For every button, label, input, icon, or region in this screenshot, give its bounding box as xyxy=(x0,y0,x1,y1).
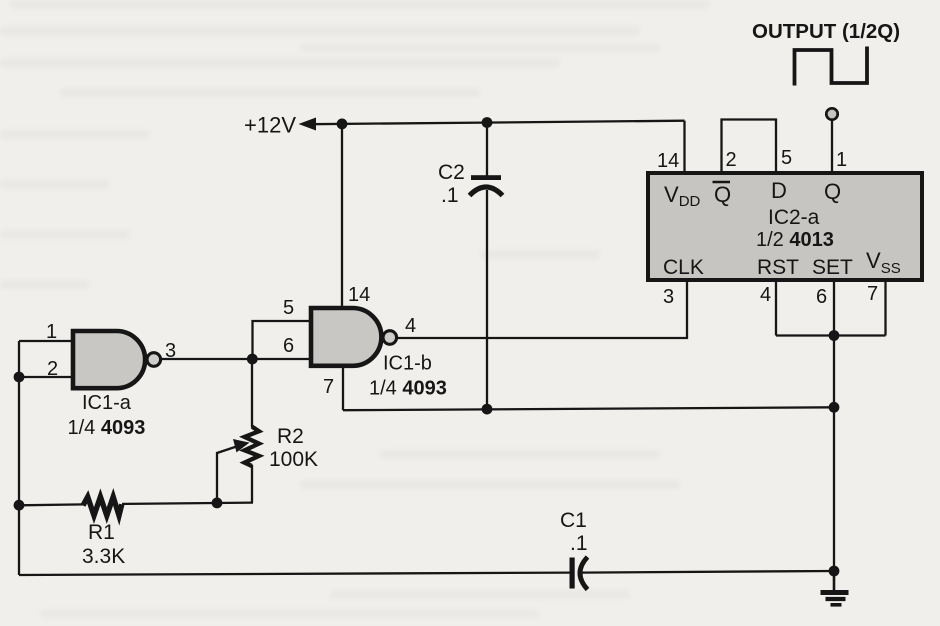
svg-text:4: 4 xyxy=(760,284,771,306)
svg-text:C1: C1 xyxy=(560,509,587,532)
wire IC2 pin 4 lead xyxy=(775,279,777,336)
wire R2 top lead xyxy=(251,359,253,427)
svg-text:3.3K: 3.3K xyxy=(82,545,125,568)
wire IC1-a pin 1 lead xyxy=(19,340,74,342)
wire IC2 pin 2 to pin 5 loop xyxy=(722,120,777,174)
junction node: rail / IC1-b pin14 xyxy=(337,119,348,130)
IC2-a 4013 body xyxy=(648,173,922,280)
junction node: C2 / mid wire xyxy=(482,404,493,415)
svg-text:1/2 4013: 1/2 4013 xyxy=(756,229,834,251)
svg-text:.1: .1 xyxy=(441,184,459,207)
power arrow +12V xyxy=(299,118,317,131)
wire R1 right lead to wiper junction xyxy=(122,503,253,504)
wire bottom rail right of C1 xyxy=(581,571,834,573)
svg-text:SET: SET xyxy=(812,256,853,279)
svg-text:1: 1 xyxy=(836,149,847,171)
junction node: rail / C2 xyxy=(482,117,493,128)
svg-text:R2: R2 xyxy=(277,425,304,448)
svg-text:7: 7 xyxy=(867,283,878,305)
svg-text:3: 3 xyxy=(165,340,176,362)
potentiometer R2 xyxy=(245,427,260,467)
svg-text:C2: C2 xyxy=(438,161,465,184)
svg-text:OUTPUT (1/2Q): OUTPUT (1/2Q) xyxy=(752,20,900,43)
wire IC1-b pin 7 lead xyxy=(342,364,344,410)
wire right column vertical (SET/RST/VSS to ground) xyxy=(833,336,835,572)
wire +12V power rail xyxy=(311,121,685,125)
svg-text:5: 5 xyxy=(781,147,792,169)
wire R1 left lead xyxy=(19,503,84,506)
svg-text:1/4 4093: 1/4 4093 xyxy=(369,378,447,400)
square wave symbol xyxy=(795,47,868,86)
wire R2 bottom lead xyxy=(251,465,253,503)
svg-text:100K: 100K xyxy=(269,448,318,471)
junction node: mid wire / right column xyxy=(829,402,840,413)
NAND gate IC1-a xyxy=(73,331,161,388)
wire IC1-a output 3 to IC1-b input 6 xyxy=(161,358,311,360)
svg-text:CLK: CLK xyxy=(663,256,704,279)
svg-text:.1: .1 xyxy=(570,532,588,555)
svg-text:Q: Q xyxy=(824,179,841,204)
wire IC1-b pin 14 lead xyxy=(341,124,343,310)
svg-text:+12V: +12V xyxy=(244,113,296,138)
junction node: left vertical / R1 xyxy=(14,500,25,511)
svg-text:5: 5 xyxy=(283,297,294,319)
wire IC2 pin 7 lead xyxy=(884,279,886,336)
wire bottom rail left of C1 xyxy=(19,573,570,575)
wire IC1-a pin 2 lead xyxy=(19,376,74,378)
wire left vertical (inputs 1-2 down to bottom rail) xyxy=(18,341,20,575)
svg-text:7: 7 xyxy=(323,376,334,398)
junction node: R1 / R2 wiper xyxy=(212,498,223,509)
svg-text:2: 2 xyxy=(726,149,737,171)
wire C2 top lead xyxy=(486,123,488,177)
output terminal Q xyxy=(826,108,837,119)
NAND gate IC1-b xyxy=(311,308,397,366)
ground xyxy=(821,571,849,605)
wire RST-SET-VSS tie xyxy=(776,334,886,336)
svg-text:IC1-a: IC1-a xyxy=(82,392,132,414)
wire R2 wiper lead xyxy=(217,446,238,503)
svg-text:2: 2 xyxy=(47,358,58,380)
capacitor C1 xyxy=(570,557,588,590)
wire IC1-b output 4 to IC2 CLK pin 3 xyxy=(397,279,687,338)
resistor R1 xyxy=(83,497,122,516)
svg-text:14: 14 xyxy=(657,150,679,172)
capacitor C2 xyxy=(470,175,503,195)
svg-text:IC1-b: IC1-b xyxy=(383,353,432,375)
svg-text:4: 4 xyxy=(405,315,416,337)
wire IC2 pin 6 lead xyxy=(833,279,835,336)
junction node: bottom rail / ground xyxy=(829,566,840,577)
svg-text:D: D xyxy=(771,178,787,203)
wire IC2 pin 1 lead to output terminal xyxy=(831,120,833,173)
junction node: inputs 1-2 xyxy=(14,372,25,383)
wire mid horizontal (pin7 / C2 / right column) xyxy=(343,407,834,410)
svg-text:3: 3 xyxy=(663,286,674,308)
svg-text:Q: Q xyxy=(714,182,731,207)
svg-text:6: 6 xyxy=(816,286,827,308)
R2 wiper arrowhead xyxy=(233,439,250,452)
svg-text:14: 14 xyxy=(348,284,370,306)
junction node: output 3 / pin 6 / R2 xyxy=(247,354,258,365)
svg-text:R1: R1 xyxy=(88,521,115,544)
svg-text:1: 1 xyxy=(46,321,57,343)
faint page bleed-through texture xyxy=(0,0,710,618)
svg-text:6: 6 xyxy=(283,335,294,357)
svg-text:IC2-a: IC2-a xyxy=(768,206,820,229)
wire IC2 pin 14 lead (rail down to IC2 VDD) xyxy=(683,121,685,173)
svg-text:RST: RST xyxy=(757,256,799,279)
junction node: pin6 / tie wire xyxy=(829,330,840,341)
wire IC1-b pin 5 branch xyxy=(253,321,312,359)
wire C2 bottom lead xyxy=(486,190,488,409)
svg-text:1/4 4093: 1/4 4093 xyxy=(68,417,146,439)
